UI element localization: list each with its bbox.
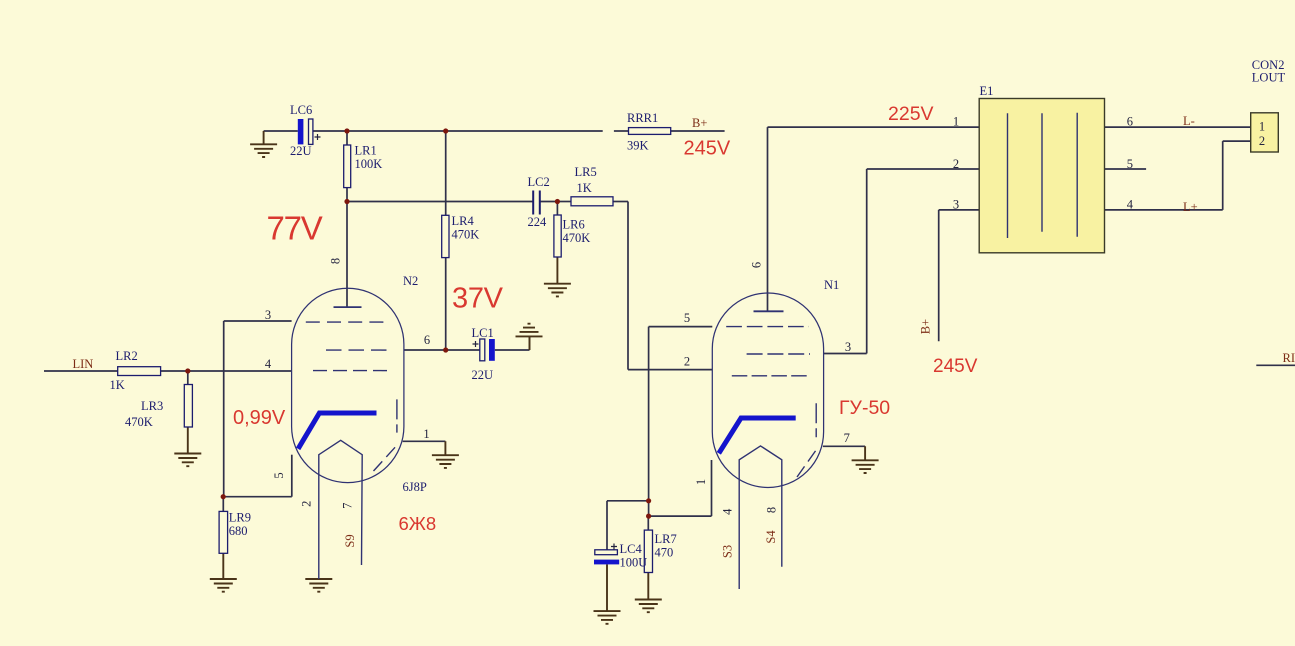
wire LR1 bottom lead to node 77V bbox=[346, 188, 348, 202]
svg-text:680: 680 bbox=[229, 524, 248, 538]
wire LR4 to pin6 node bbox=[445, 258, 447, 350]
svg-text:LIN: LIN bbox=[73, 357, 94, 371]
svg-text:37V: 37V bbox=[452, 283, 504, 315]
wire N1 pin1 lead bbox=[711, 460, 713, 516]
svg-text:6: 6 bbox=[749, 262, 763, 268]
tube N2 heater bbox=[319, 440, 362, 579]
svg-text:2: 2 bbox=[684, 355, 690, 369]
resistor LR3 bbox=[125, 385, 192, 430]
svg-text:RRR1: RRR1 bbox=[627, 111, 658, 125]
svg-text:4: 4 bbox=[1127, 198, 1134, 212]
svg-text:1: 1 bbox=[1259, 120, 1265, 134]
svg-text:L+: L+ bbox=[1183, 200, 1198, 214]
svg-text:RIN: RIN bbox=[1283, 351, 1295, 365]
wire bus to LR4 bbox=[445, 131, 447, 215]
wire N1 anode riser bbox=[767, 127, 769, 311]
svg-text:7: 7 bbox=[341, 503, 355, 509]
tube N2 grid row 2 bbox=[326, 349, 387, 351]
svg-text:B+: B+ bbox=[919, 319, 933, 334]
svg-text:E1: E1 bbox=[980, 84, 994, 98]
svg-text:1K: 1K bbox=[577, 181, 592, 195]
svg-text:LR5: LR5 bbox=[575, 165, 597, 179]
wire pin3 drop to pin5 bbox=[223, 321, 225, 497]
wire LIN input bbox=[44, 370, 118, 372]
resistor LR1 bbox=[344, 144, 383, 188]
svg-text:39K: 39K bbox=[627, 139, 649, 153]
wire LR5 left lead bbox=[557, 201, 571, 203]
wire N1 pin5 bbox=[649, 326, 713, 328]
svg-text:LC6: LC6 bbox=[290, 103, 312, 117]
svg-text:470K: 470K bbox=[452, 228, 480, 242]
wire B+ drop bbox=[938, 210, 940, 341]
wire LR6 top lead bbox=[556, 202, 558, 216]
svg-text:470K: 470K bbox=[563, 231, 591, 245]
ground G3 at LR9 bbox=[210, 553, 237, 591]
svg-text:5: 5 bbox=[1127, 157, 1133, 171]
resistor LR7 bbox=[644, 530, 676, 572]
wire LR7 top lead bbox=[647, 516, 649, 530]
svg-text:4: 4 bbox=[721, 508, 735, 515]
wire pin3 riser to E1 pin2 bbox=[866, 169, 868, 354]
resistor LR5 bbox=[571, 165, 613, 206]
svg-text:22U: 22U bbox=[290, 144, 312, 158]
svg-text:22U: 22U bbox=[472, 368, 494, 382]
wire bus node B1 to LR4 top node bbox=[347, 130, 446, 132]
svg-text:1K: 1K bbox=[110, 378, 125, 392]
svg-text:224: 224 bbox=[528, 215, 548, 229]
wire LR5 to N1 grid drop bbox=[627, 202, 629, 370]
wire LC2 to LR5 node bbox=[540, 201, 557, 203]
tube N2 inner arc dash bbox=[374, 443, 400, 471]
svg-text:LR1: LR1 bbox=[355, 144, 377, 158]
resistor LR6 bbox=[554, 215, 590, 257]
svg-text:LR9: LR9 bbox=[229, 511, 251, 525]
wire LR1 top lead bbox=[346, 131, 348, 145]
wire N1 pin2 bbox=[628, 369, 712, 371]
ground G6 at LR6 bbox=[544, 257, 571, 296]
tube N1 heater bbox=[739, 446, 782, 589]
svg-text:L-: L- bbox=[1183, 114, 1195, 128]
svg-text:100K: 100K bbox=[355, 157, 383, 171]
svg-text:470: 470 bbox=[655, 546, 674, 560]
tube N1 grid row 2 bbox=[747, 353, 810, 355]
wire N2 pin3 bbox=[224, 320, 292, 322]
svg-text:S3: S3 bbox=[721, 545, 735, 558]
ground G7 inverted at LC1 bbox=[516, 324, 543, 350]
svg-text:5: 5 bbox=[684, 311, 690, 325]
ground G8 at LC4 bbox=[594, 564, 621, 623]
wire N1 pin7 bbox=[823, 445, 865, 447]
wire LC4 branch bbox=[607, 500, 649, 502]
ground G1 at LC6 bbox=[250, 131, 277, 157]
wire node 77V to LC2 bbox=[347, 201, 533, 203]
node junction dots bbox=[185, 128, 651, 518]
wire E1 pin3 bbox=[939, 209, 980, 211]
wire bus to RRR1 bbox=[446, 130, 603, 132]
wire E1 pin5 stub bbox=[1105, 168, 1147, 170]
tube N2 labels bbox=[265, 258, 430, 548]
ground G2 at LR3 bbox=[174, 427, 201, 466]
svg-text:8: 8 bbox=[765, 507, 779, 513]
ground G4 at N2 heater pin 2 bbox=[305, 579, 332, 592]
resistor LR9 bbox=[219, 511, 251, 554]
svg-text:ГУ-50: ГУ-50 bbox=[839, 397, 890, 419]
svg-text:100U: 100U bbox=[620, 556, 648, 570]
wire N1 pin5 drop bbox=[648, 327, 650, 516]
tube N1 grid row 1 bbox=[726, 326, 809, 328]
tube N2 anode plate bbox=[334, 306, 362, 308]
wire N2 pin1 bbox=[403, 440, 446, 442]
svg-text:2: 2 bbox=[1259, 134, 1265, 148]
wire N2 pin5 bbox=[223, 496, 292, 498]
wire N2 pin6 bbox=[404, 349, 480, 351]
svg-text:77V: 77V bbox=[267, 210, 323, 247]
svg-text:LC4: LC4 bbox=[620, 542, 643, 556]
svg-text:1: 1 bbox=[694, 479, 708, 485]
svg-text:N1: N1 bbox=[824, 278, 839, 292]
wire LC1 to ground riser bbox=[495, 349, 530, 351]
wire LR2 right lead bbox=[161, 370, 188, 372]
wire LR5 right lead bbox=[613, 201, 628, 203]
svg-text:5: 5 bbox=[272, 472, 286, 478]
resistor RRR1 bbox=[627, 111, 671, 153]
tube N1 inner arc dash bbox=[797, 446, 819, 477]
svg-text:2: 2 bbox=[953, 157, 959, 171]
svg-text:245V: 245V bbox=[933, 356, 978, 377]
svg-text:N2: N2 bbox=[403, 274, 418, 288]
ground G9 at LR7 bbox=[635, 573, 662, 613]
capacitor LC4 bbox=[594, 542, 647, 570]
svg-text:7: 7 bbox=[844, 431, 850, 445]
wire RIN stub bbox=[1256, 364, 1295, 366]
svg-text:6Ж8: 6Ж8 bbox=[399, 513, 437, 534]
wire E1 pin6 to CON2 bbox=[1105, 126, 1251, 128]
svg-text:LC2: LC2 bbox=[528, 175, 550, 189]
ground G5 at N2 pin 1 bbox=[432, 441, 459, 468]
wire 225V to E1 pin1 bbox=[768, 126, 980, 128]
tube N1 beam plate dash bbox=[815, 403, 817, 437]
svg-text:4: 4 bbox=[265, 357, 272, 371]
ground G10 at N1 pin 7 bbox=[852, 446, 879, 473]
svg-text:6J8P: 6J8P bbox=[403, 480, 427, 494]
resistor LR4 bbox=[442, 214, 480, 258]
tube N1 grid row 3 bbox=[732, 375, 811, 377]
svg-text:1: 1 bbox=[423, 427, 429, 441]
wire LR9 top lead bbox=[222, 497, 224, 512]
tube N2 beam plate dash bbox=[396, 399, 398, 432]
svg-text:LC1: LC1 bbox=[472, 326, 494, 340]
tube N2 grid row 1 bbox=[306, 321, 384, 323]
wire LR3 top lead bbox=[187, 371, 189, 385]
tube N2 grid row 3 bbox=[313, 370, 387, 372]
svg-text:LR7: LR7 bbox=[655, 532, 677, 546]
capacitor LC6 bbox=[290, 103, 321, 158]
svg-text:3: 3 bbox=[953, 198, 959, 212]
svg-text:470K: 470K bbox=[125, 415, 153, 429]
capacitor LC2 bbox=[528, 175, 550, 229]
svg-text:225V: 225V bbox=[888, 103, 934, 125]
wire E1 pin4 L+ bbox=[1105, 209, 1223, 211]
transformer E1 bbox=[953, 84, 1134, 253]
svg-text:6: 6 bbox=[1127, 115, 1133, 129]
wire RRR1 to B+ stub bbox=[671, 130, 725, 132]
svg-text:LR2: LR2 bbox=[116, 349, 138, 363]
tube N1 envelope bbox=[712, 293, 823, 487]
tube N1 anode plate bbox=[754, 310, 784, 312]
wire LC6 to node B1 bbox=[313, 130, 347, 132]
resistor LR2 bbox=[110, 349, 161, 392]
tube N1 labels bbox=[684, 262, 851, 558]
connector CON2 bbox=[1251, 58, 1286, 152]
svg-text:3: 3 bbox=[265, 308, 271, 322]
svg-text:B+: B+ bbox=[692, 116, 707, 130]
svg-text:1: 1 bbox=[953, 115, 959, 129]
svg-text:LR3: LR3 bbox=[141, 399, 163, 413]
capacitor LC1 bbox=[472, 326, 495, 382]
wire N2 pin4 bbox=[188, 370, 292, 372]
svg-text:LR4: LR4 bbox=[452, 214, 475, 228]
tube N2 cathode bbox=[298, 413, 376, 449]
svg-text:S4: S4 bbox=[764, 530, 778, 544]
svg-text:LR6: LR6 bbox=[563, 218, 585, 232]
svg-text:6: 6 bbox=[424, 333, 430, 347]
wire N2 anode lead bbox=[346, 202, 348, 308]
svg-text:2: 2 bbox=[299, 501, 313, 507]
wire ground to LC6 bbox=[264, 130, 298, 132]
svg-text:3: 3 bbox=[845, 340, 851, 354]
svg-text:S9: S9 bbox=[343, 534, 357, 547]
tube N1 cathode bbox=[719, 418, 796, 453]
svg-text:LOUT: LOUT bbox=[1252, 71, 1286, 85]
svg-text:0,99V: 0,99V bbox=[233, 407, 286, 429]
wire N1 pin3 bbox=[824, 353, 867, 355]
tube N2 envelope bbox=[292, 288, 404, 482]
svg-text:8: 8 bbox=[328, 258, 342, 264]
svg-text:245V: 245V bbox=[684, 138, 731, 160]
